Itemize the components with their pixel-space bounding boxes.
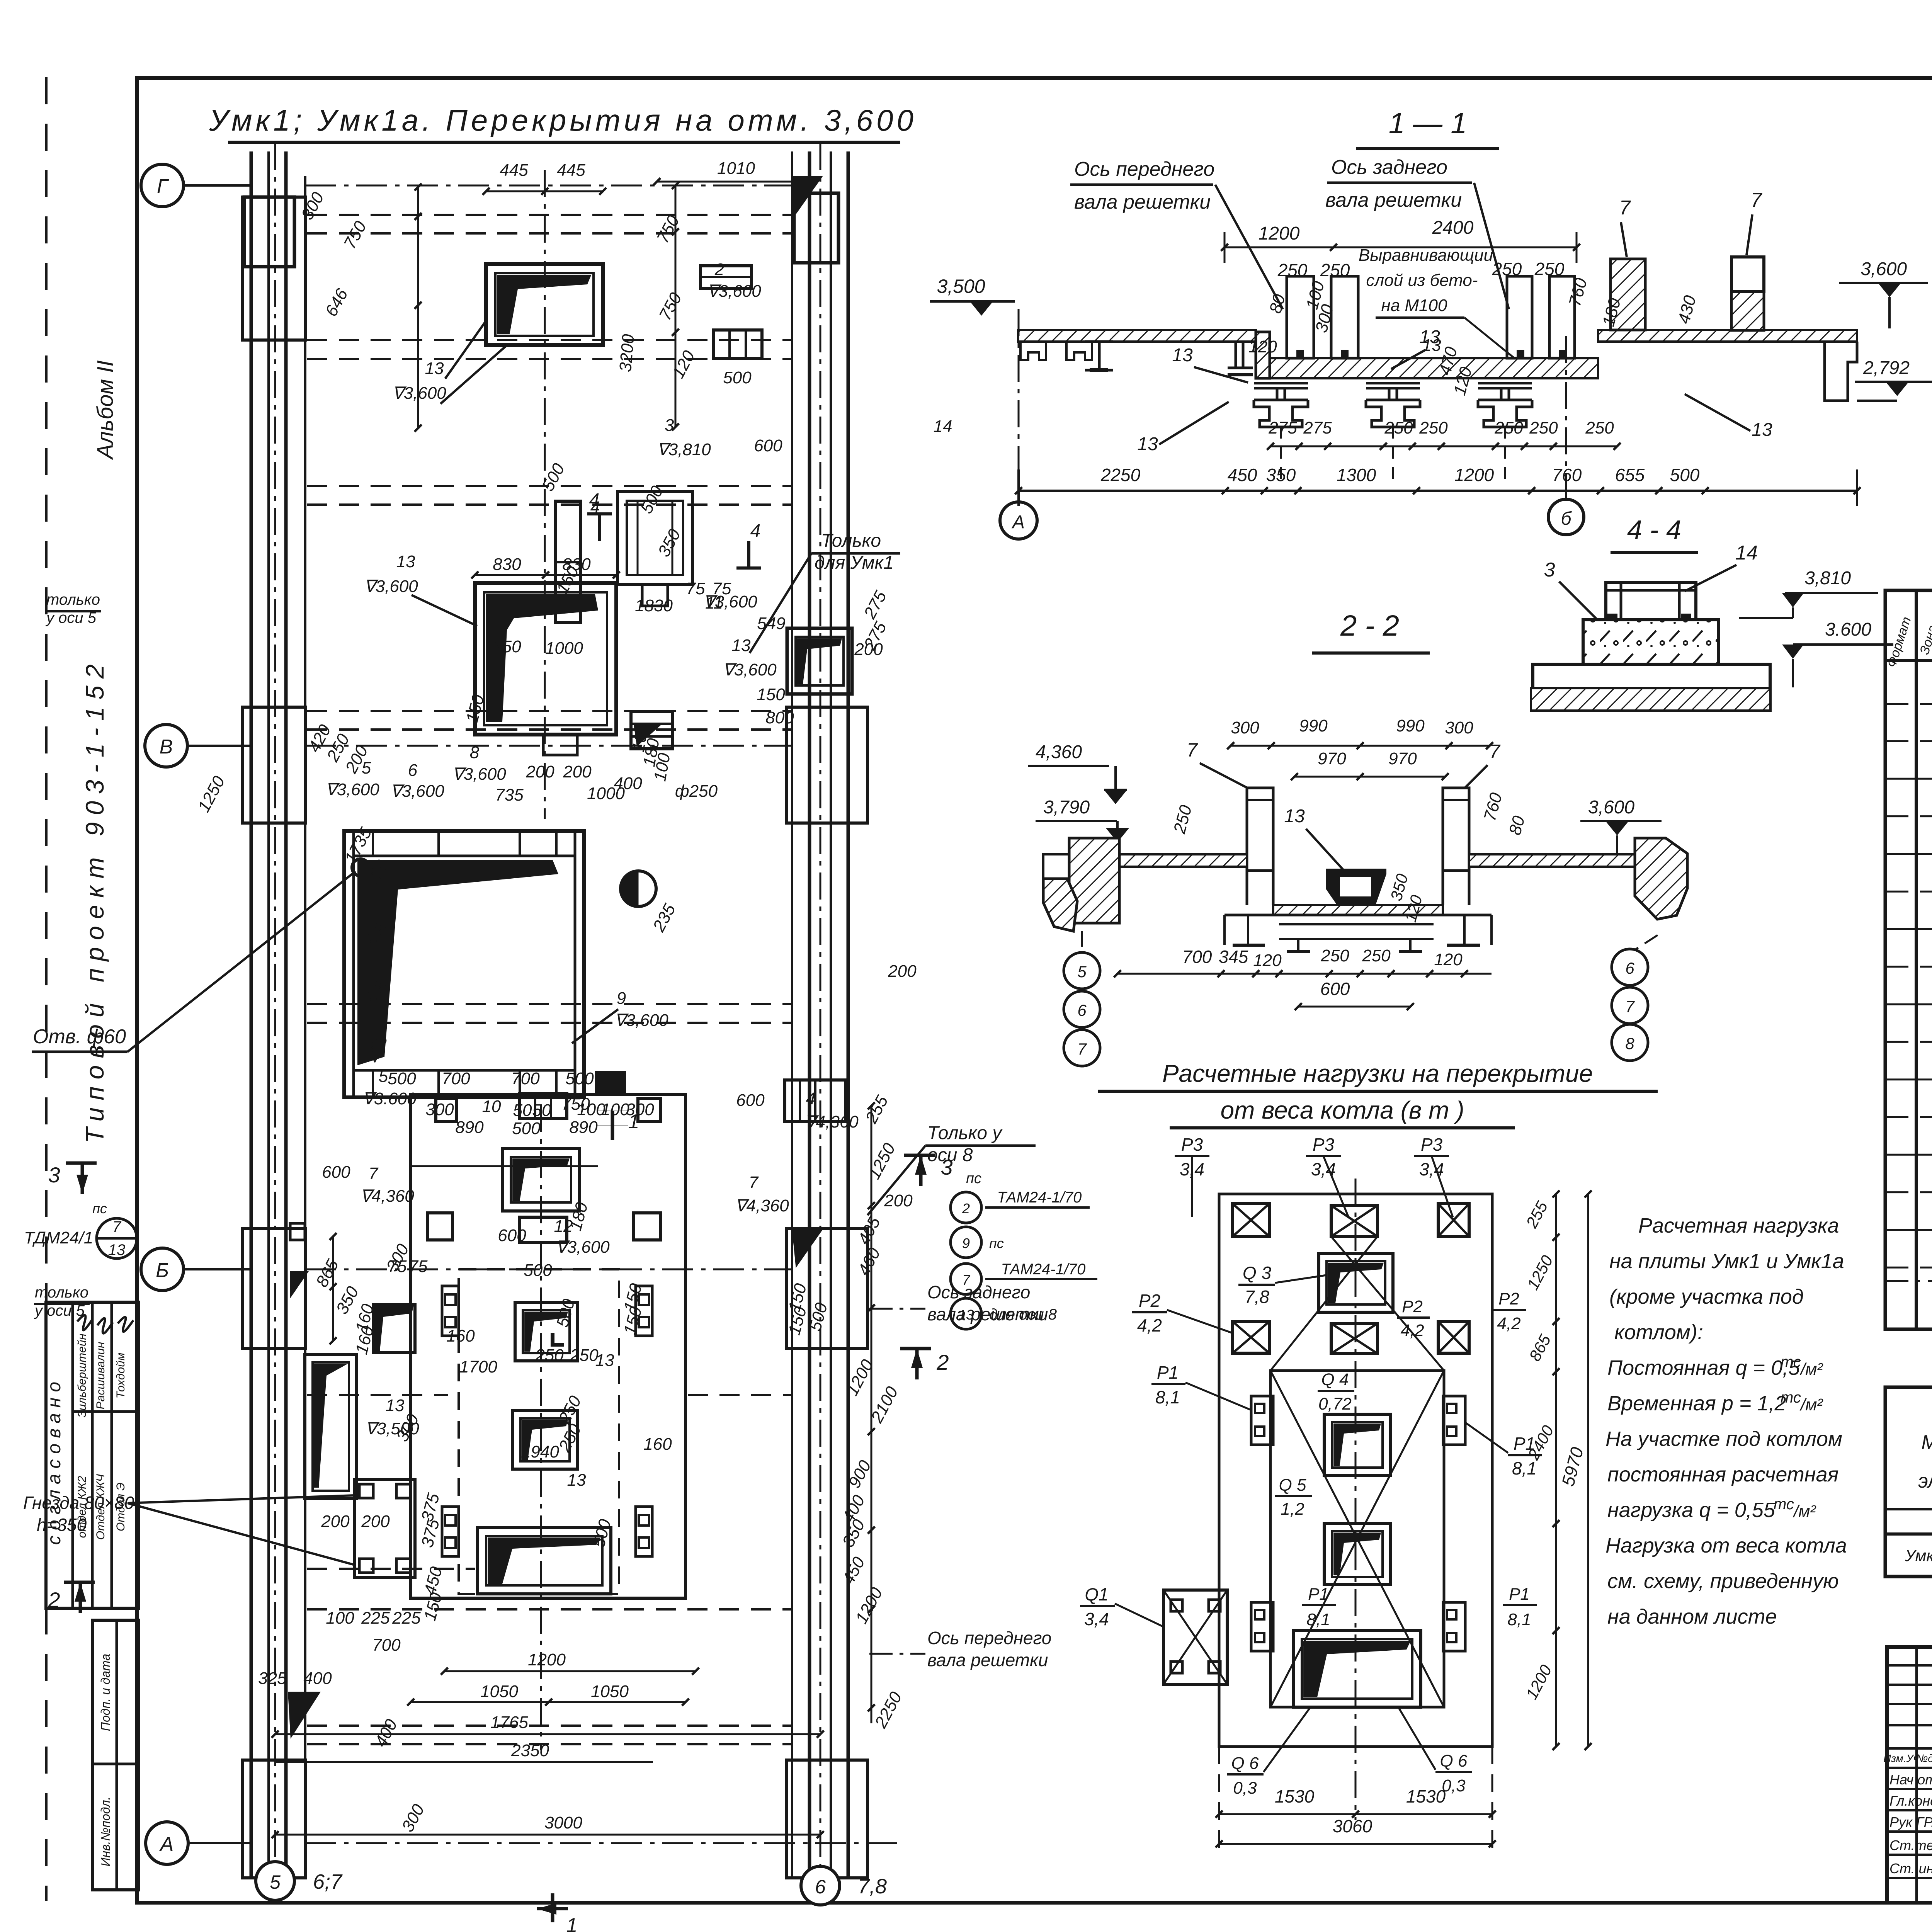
svg-text:Г: Г (157, 175, 169, 198)
plan dashed partial lines lower (307, 1394, 448, 1396)
s22 under beams (1225, 914, 1492, 917)
svg-text:970: 970 (1318, 749, 1346, 768)
svg-text:500: 500 (512, 1119, 541, 1138)
spec table header (1885, 659, 1932, 662)
svg-text:/м²: /м² (1793, 1502, 1816, 1521)
svg-text:2: 2 (48, 1588, 60, 1612)
svg-text:10: 10 (482, 1097, 501, 1116)
svg-text:350: 350 (1266, 465, 1296, 485)
svg-text:6: 6 (1077, 1001, 1087, 1019)
svg-text:1830: 1830 (635, 596, 673, 615)
svg-text:4: 4 (806, 1089, 815, 1108)
opening B (513, 1411, 577, 1469)
svg-text:пс: пс (966, 1170, 981, 1187)
wall wedge right strip B (792, 1229, 823, 1267)
svg-text:7: 7 (1619, 197, 1631, 219)
svg-text:250: 250 (1494, 418, 1523, 437)
load Q1 block (1163, 1590, 1227, 1684)
plan dashed line below boiler (307, 1608, 791, 1611)
opening 13 at wall axis 6 (1830) (787, 628, 852, 694)
plan wall axis 6 strip (791, 151, 793, 1878)
load right dim chain (1555, 1194, 1557, 1747)
axis circle 5 bottom (256, 1862, 294, 1900)
svg-text:830: 830 (562, 555, 591, 574)
opening lower small 10 (595, 1071, 626, 1093)
section mark 3 left (66, 1162, 97, 1165)
svg-text:3.600: 3.600 (1825, 619, 1871, 640)
svg-text:345: 345 (1219, 947, 1248, 967)
embed strip 4 vertical (555, 501, 580, 622)
hole Отв ф60 (352, 859, 369, 876)
svg-text:1010: 1010 (717, 159, 755, 178)
anchor plate row1 mid (519, 1094, 567, 1119)
svg-text:200: 200 (888, 962, 917, 981)
svg-text:1 — 1: 1 — 1 (1389, 107, 1467, 140)
svg-text:Ст.техн: Ст.техн (1889, 1837, 1932, 1853)
svg-text:13: 13 (732, 636, 751, 655)
svg-text:эл - та: эл - та (1918, 1470, 1932, 1492)
axis circle Г (141, 164, 184, 207)
big opening Отв (500-700-700-500) (344, 831, 584, 1097)
svg-text:1,2: 1,2 (1281, 1500, 1304, 1519)
svg-text:1050: 1050 (480, 1682, 518, 1701)
load X-box row2 left (1233, 1321, 1269, 1353)
s44 ground slab (1533, 620, 1770, 687)
svg-text:250: 250 (1320, 946, 1349, 965)
svg-text:тс: тс (1774, 1496, 1794, 1513)
svg-text:Рук ГР.: Рук ГР. (1889, 1814, 1932, 1830)
wall small square (290, 1223, 305, 1240)
svg-text:Р2: Р2 (1498, 1289, 1519, 1308)
plan dashed beam lines (307, 214, 791, 216)
svg-text:600: 600 (498, 1226, 526, 1245)
hole ф250 (621, 871, 656, 906)
load inner big rect (1270, 1371, 1444, 1707)
svg-text:250: 250 (570, 1346, 599, 1365)
s11 step down line (1256, 332, 1270, 378)
svg-text:3,600: 3,600 (1588, 797, 1634, 818)
svg-text:Ось переднего: Ось переднего (1074, 158, 1214, 180)
svg-text:3,4: 3,4 (1084, 1609, 1109, 1629)
opening C wide bottom (478, 1527, 611, 1594)
embed plate 2 upper (701, 266, 752, 288)
embed element 3,600/180 (631, 711, 672, 749)
svg-text:∇4,360: ∇4,360 (360, 1187, 414, 1206)
svg-text:3: 3 (665, 416, 674, 435)
svg-text:1000: 1000 (545, 639, 583, 658)
svg-text:Только у: Только у (927, 1123, 1003, 1143)
side bracket left lower (442, 1507, 459, 1556)
svg-text:250: 250 (1529, 418, 1558, 437)
svg-text:120: 120 (1253, 951, 1282, 970)
load opening Q3 (1319, 1253, 1393, 1312)
svg-text:от веса котла (в т ): от веса котла (в т ) (1220, 1096, 1464, 1124)
svg-text:13: 13 (1284, 806, 1305, 827)
plan wall axis 5 strip (250, 151, 253, 1878)
svg-text:Расчетная нагрузка: Расчетная нагрузка (1638, 1214, 1839, 1237)
leader 13 top (445, 321, 486, 379)
svg-text:Q1: Q1 (1085, 1584, 1108, 1604)
svg-text:300: 300 (1445, 718, 1473, 737)
svg-text:Инв.№подл.: Инв.№подл. (99, 1797, 112, 1867)
svg-text:13: 13 (1137, 434, 1158, 454)
svg-text:9: 9 (962, 1235, 970, 1251)
svg-text:13: 13 (1422, 336, 1441, 355)
svg-text:8,1: 8,1 (1155, 1387, 1180, 1407)
s22 slab band (1119, 854, 1247, 867)
svg-text:нагрузка q = 0,55: нагрузка q = 0,55 (1607, 1498, 1776, 1522)
plan wall axis 5 centerline (274, 143, 276, 1907)
svg-text:∇3,600: ∇3,600 (556, 1238, 610, 1257)
svg-text:4,2: 4,2 (1137, 1315, 1162, 1335)
svg-text:постоянная расчетная: постоянная расчетная (1607, 1463, 1838, 1486)
svg-text:Умк1; Умк1а: Умк1; Умк1а (1905, 1546, 1932, 1565)
s11 recessed slab (1270, 358, 1598, 378)
svg-text:Р1: Р1 (1308, 1585, 1329, 1604)
svg-text:150: 150 (757, 685, 785, 704)
svg-text:2: 2 (962, 1201, 970, 1216)
svg-text:∇3,600: ∇3,600 (452, 765, 506, 784)
axis circle А (146, 1822, 188, 1864)
svg-text:2: 2 (714, 260, 724, 279)
svg-text:на данном листе: на данном листе (1607, 1605, 1777, 1628)
s11 dim 1200 2400 (1225, 247, 1577, 248)
svg-text:75: 75 (686, 579, 705, 598)
svg-text:100: 100 (326, 1609, 354, 1628)
assembly 14 monolithic box (617, 492, 692, 584)
s11 left slab (1018, 330, 1256, 342)
axis circle Б (141, 1248, 184, 1291)
svg-text:Р3: Р3 (1313, 1134, 1335, 1155)
svg-text:Нагрузка от веса котла: Нагрузка от веса котла (1605, 1534, 1847, 1557)
svg-text:6: 6 (408, 761, 418, 780)
axis circle 6 bottom (801, 1866, 840, 1905)
svg-text:4: 4 (750, 521, 761, 541)
svg-text:120: 120 (1434, 950, 1463, 969)
svg-text:3000: 3000 (544, 1813, 582, 1832)
svg-text:В: В (160, 736, 173, 758)
title block frame (1887, 1647, 1932, 1903)
s22 left corbel (1043, 879, 1077, 931)
s11 anchor dots (1296, 350, 1304, 357)
s11 left I-beam (1085, 340, 1113, 343)
stamp table согласовано (46, 1302, 138, 1608)
s22 recess walls (1272, 867, 1275, 905)
svg-text:На участке под котлом: На участке под котлом (1605, 1427, 1842, 1451)
svg-text:пс: пс (92, 1201, 107, 1216)
svg-text:∇3.600: ∇3.600 (362, 1089, 417, 1108)
svg-text:2: 2 (936, 1350, 949, 1374)
svg-text:/м²: /м² (1799, 1360, 1823, 1379)
svg-text:только: только (35, 1284, 88, 1301)
svg-text:Q 5: Q 5 (1279, 1476, 1306, 1495)
plan central axis dash-dot (544, 170, 546, 819)
svg-text:970: 970 (1388, 749, 1417, 768)
svg-text:Временная р = 1,2: Временная р = 1,2 (1607, 1392, 1786, 1415)
anchor square row2 left (427, 1213, 452, 1240)
svg-text:500: 500 (388, 1069, 416, 1088)
svg-text:ф250: ф250 (675, 782, 718, 801)
svg-text:13: 13 (425, 359, 444, 378)
svg-text:1300: 1300 (1337, 465, 1376, 485)
svg-text:б: б (1561, 509, 1572, 529)
svg-text:250: 250 (535, 1346, 564, 1365)
wall wedge bottom left (288, 1692, 321, 1739)
plan top column head left (244, 197, 294, 267)
opening A with corner mark (515, 1303, 577, 1361)
svg-text:ТАМ24-1/70: ТАМ24-1/70 (997, 1189, 1082, 1206)
opening 13 upper mid (890-500-890) (502, 1148, 580, 1211)
s11 right slab (1598, 330, 1857, 342)
s44 ground hatch (1531, 688, 1770, 711)
axis line В (305, 745, 792, 747)
svg-text:пс: пс (989, 1235, 1004, 1251)
svg-text:ТАМ24-1/70: ТАМ24-1/70 (1001, 1261, 1086, 1278)
load opening bottom wide (1293, 1631, 1421, 1707)
svg-text:вала решетки: вала решетки (1325, 189, 1462, 211)
svg-text:990: 990 (1396, 716, 1425, 735)
svg-text:655: 655 (1615, 465, 1645, 485)
svg-text:7: 7 (1187, 739, 1198, 761)
svg-text:325: 325 (258, 1669, 287, 1688)
svg-text:1530: 1530 (1406, 1786, 1446, 1806)
svg-text:735: 735 (495, 786, 524, 804)
svg-text:300: 300 (425, 1100, 454, 1119)
steel table frame (1885, 1387, 1932, 1577)
svg-text:3200: 3200 (616, 333, 638, 372)
svg-text:800: 800 (765, 708, 794, 727)
svg-text:Q 6: Q 6 (1231, 1754, 1259, 1773)
svg-text:вала решетки: вала решетки (927, 1304, 1048, 1324)
plan vertical dim chain left lower (332, 1236, 334, 1341)
s22 left post (1247, 788, 1273, 871)
svg-text:Постоянная q = 0,5: Постоянная q = 0,5 (1607, 1356, 1800, 1379)
svg-text:7: 7 (1625, 997, 1635, 1015)
svg-text:Расшивалин: Расшивалин (94, 1342, 107, 1410)
svg-text:1050: 1050 (591, 1682, 629, 1701)
boiler inner dashed rect (459, 1269, 619, 1594)
embed plate 12 (519, 1217, 567, 1242)
svg-text:500: 500 (1670, 465, 1700, 485)
svg-text:13: 13 (108, 1242, 126, 1259)
svg-text:слой из бето-: слой из бето- (1366, 271, 1478, 290)
plan vertical dim chain right (675, 185, 677, 427)
svg-text:225: 225 (392, 1609, 421, 1628)
svg-text:160: 160 (643, 1435, 672, 1454)
load side bracket left low (1251, 1602, 1273, 1651)
svg-text:7,8: 7,8 (858, 1875, 887, 1898)
plan note ТАМ24 for axis 8 (951, 1264, 981, 1294)
svg-text:13: 13 (1752, 420, 1772, 440)
svg-text:∇3,600: ∇3,600 (707, 282, 761, 301)
axis circle В (145, 724, 187, 767)
small element with wedge left (373, 1304, 415, 1352)
s11 I-beam at step (1235, 342, 1237, 368)
svg-text:h=350: h=350 (37, 1515, 87, 1535)
svg-text:Тохдойм: Тохдойм (114, 1353, 127, 1399)
s11 left slab end channels (1020, 342, 1046, 360)
spec table row lines (1885, 740, 1932, 742)
svg-text:/м²: /м² (1799, 1395, 1823, 1414)
plan dim chain lines (486, 190, 603, 192)
load side bracket left up (1251, 1396, 1273, 1445)
svg-text:1765: 1765 (490, 1713, 528, 1732)
svg-text:250: 250 (1384, 418, 1413, 437)
stamp signatures (77, 1315, 93, 1330)
anchor square row2 right (634, 1213, 661, 1240)
svg-text:Гнезда 80×80: Гнезда 80×80 (23, 1493, 134, 1513)
svg-text:200: 200 (526, 762, 554, 781)
svg-text:14: 14 (1735, 542, 1758, 564)
svg-text:600: 600 (1320, 979, 1350, 999)
svg-text:225: 225 (361, 1609, 390, 1628)
svg-text:3,810: 3,810 (1804, 568, 1851, 588)
svg-text:Ось заднего: Ось заднего (927, 1282, 1030, 1302)
axis line А (305, 1842, 900, 1844)
svg-text:300: 300 (626, 1100, 654, 1119)
svg-text:∇4,360: ∇4,360 (804, 1112, 859, 1131)
svg-text:3060: 3060 (1333, 1816, 1372, 1836)
side bracket right upper (636, 1286, 652, 1336)
svg-text:1200: 1200 (1259, 223, 1300, 244)
svg-text:600: 600 (736, 1091, 765, 1110)
svg-text:Нач отд: Нач отд (1889, 1772, 1932, 1787)
svg-text:Ось заднего: Ось заднего (1331, 156, 1447, 179)
svg-text:только: только (46, 591, 100, 608)
svg-text:котлом):: котлом): (1614, 1321, 1703, 1344)
svg-text:120: 120 (1248, 337, 1277, 356)
svg-text:160: 160 (446, 1327, 475, 1345)
svg-text:Ось переднего: Ось переднего (927, 1628, 1051, 1648)
svg-text:Выравнивающии: Выравнивающии (1359, 246, 1493, 265)
svg-text:1940: 1940 (521, 1442, 559, 1461)
plan vertical dim chain right lower (871, 1106, 872, 1723)
s11 block 7 right (1731, 257, 1764, 292)
svg-text:Подп. и дата: Подп. и дата (99, 1654, 112, 1731)
svg-text:Расчетные нагрузки на перекр: Расчетные нагрузки на перекрытие (1162, 1060, 1593, 1087)
svg-text:Только: Только (821, 531, 881, 551)
svg-text:2 - 2: 2 - 2 (1340, 609, 1399, 642)
svg-text:75: 75 (388, 1257, 407, 1276)
svg-text:4,360: 4,360 (1036, 742, 1082, 762)
leader O5 label (412, 595, 477, 626)
svg-text:7: 7 (369, 1164, 379, 1183)
svg-text:600: 600 (322, 1163, 350, 1182)
load center axis (1355, 1179, 1357, 1820)
svg-text:8,1: 8,1 (1306, 1610, 1330, 1629)
boiler outline rect (411, 1094, 685, 1598)
svg-text:1000: 1000 (587, 784, 625, 803)
s22 black wedge mid (1326, 869, 1386, 905)
svg-text:оси 8: оси 8 (927, 1145, 973, 1165)
svg-text:тс: тс (1781, 1354, 1801, 1371)
svg-text:Отв. ф60: Отв. ф60 (33, 1026, 126, 1048)
svg-text:Альбом II: Альбом II (93, 361, 118, 460)
svg-text:0,72: 0,72 (1318, 1395, 1352, 1413)
svg-text:890: 890 (455, 1118, 484, 1137)
svg-text:№док.: №док. (1916, 1752, 1932, 1764)
section mark 1 bottom (551, 1893, 554, 1922)
svg-text:275: 275 (1303, 418, 1332, 437)
svg-text:на плиты Умк1 и Умк1а: на плиты Умк1 и Умк1а (1609, 1250, 1844, 1273)
svg-text:5: 5 (270, 1871, 281, 1893)
s11 mid beams (1254, 382, 1308, 384)
svg-text:250: 250 (1419, 418, 1448, 437)
svg-text:2400: 2400 (1432, 218, 1474, 238)
svg-text:5: 5 (362, 759, 371, 777)
anchor square row1 left (436, 1099, 457, 1121)
plan wall pilaster blocks (243, 197, 305, 340)
opening 13 top (445x445) (486, 264, 603, 345)
plan vertical dim chain left (417, 185, 419, 428)
s11 block 7 left (1611, 259, 1645, 330)
load X-box row2 mid (1331, 1323, 1378, 1354)
s22 circles left (1064, 952, 1100, 989)
axis line Г (305, 185, 792, 187)
title block signature rows (1887, 1788, 1932, 1790)
stepped embed 4 at wall 6 (785, 1080, 846, 1122)
svg-text:Б: Б (156, 1259, 169, 1282)
s22 right end corbel (1635, 838, 1687, 919)
svg-text:Р1: Р1 (1509, 1585, 1530, 1604)
svg-text:∇3,600: ∇3,600 (614, 1011, 668, 1030)
svg-text:8: 8 (470, 743, 480, 762)
svg-text:450: 450 (1228, 465, 1257, 485)
svg-text:для Умк1: для Умк1 (815, 553, 894, 573)
axis line Б (305, 1269, 792, 1270)
svg-text:50: 50 (513, 1101, 532, 1120)
section mark 2 left (64, 1581, 95, 1584)
svg-text:6;7: 6;7 (313, 1870, 343, 1893)
svg-text:Типовой проект 903-1-152: Типовой проект 903-1-152 (80, 657, 109, 1143)
paper edge dashed line left (45, 77, 48, 1901)
s44 bracket (1606, 583, 1696, 620)
svg-text:13: 13 (567, 1471, 586, 1490)
svg-text:3: 3 (48, 1163, 60, 1187)
svg-text:Q 6: Q 6 (1440, 1752, 1468, 1770)
leader O1 label (440, 346, 506, 404)
s11 bottom dim chain (1019, 490, 1857, 492)
opening 13 (830x830) (475, 583, 616, 735)
spec table frame (1885, 590, 1932, 1329)
load dim 5970 (1587, 1194, 1589, 1747)
svg-text:400: 400 (303, 1669, 332, 1688)
section mark 3 right (904, 1154, 935, 1157)
svg-text:Q 3: Q 3 (1243, 1263, 1272, 1283)
svg-text:0,3: 0,3 (1233, 1779, 1257, 1798)
load diag cross lines top (1270, 1236, 1378, 1371)
svg-text:14: 14 (934, 417, 952, 436)
svg-text:7,8: 7,8 (1245, 1287, 1269, 1307)
svg-text:∇3,600: ∇3,600 (325, 780, 379, 799)
svg-text:5: 5 (1077, 963, 1087, 981)
svg-text:445: 445 (500, 161, 528, 180)
svg-text:∇3,500: ∇3,500 (365, 1419, 419, 1438)
svg-text:990: 990 (1299, 716, 1328, 735)
svg-text:8,1: 8,1 (1512, 1458, 1537, 1478)
svg-text:Р2: Р2 (1139, 1291, 1160, 1311)
svg-text:750: 750 (561, 1095, 590, 1114)
svg-text:∇3,810: ∇3,810 (657, 440, 711, 459)
svg-text:13: 13 (386, 1396, 405, 1415)
s44 concrete block (1583, 620, 1718, 664)
svg-text:700: 700 (372, 1636, 401, 1655)
svg-text:∇3,600: ∇3,600 (723, 660, 777, 679)
svg-text:200: 200 (884, 1191, 913, 1210)
svg-text:7: 7 (1077, 1040, 1087, 1058)
svg-text:7: 7 (1489, 741, 1501, 762)
svg-text:∇3,600: ∇3,600 (364, 577, 418, 596)
